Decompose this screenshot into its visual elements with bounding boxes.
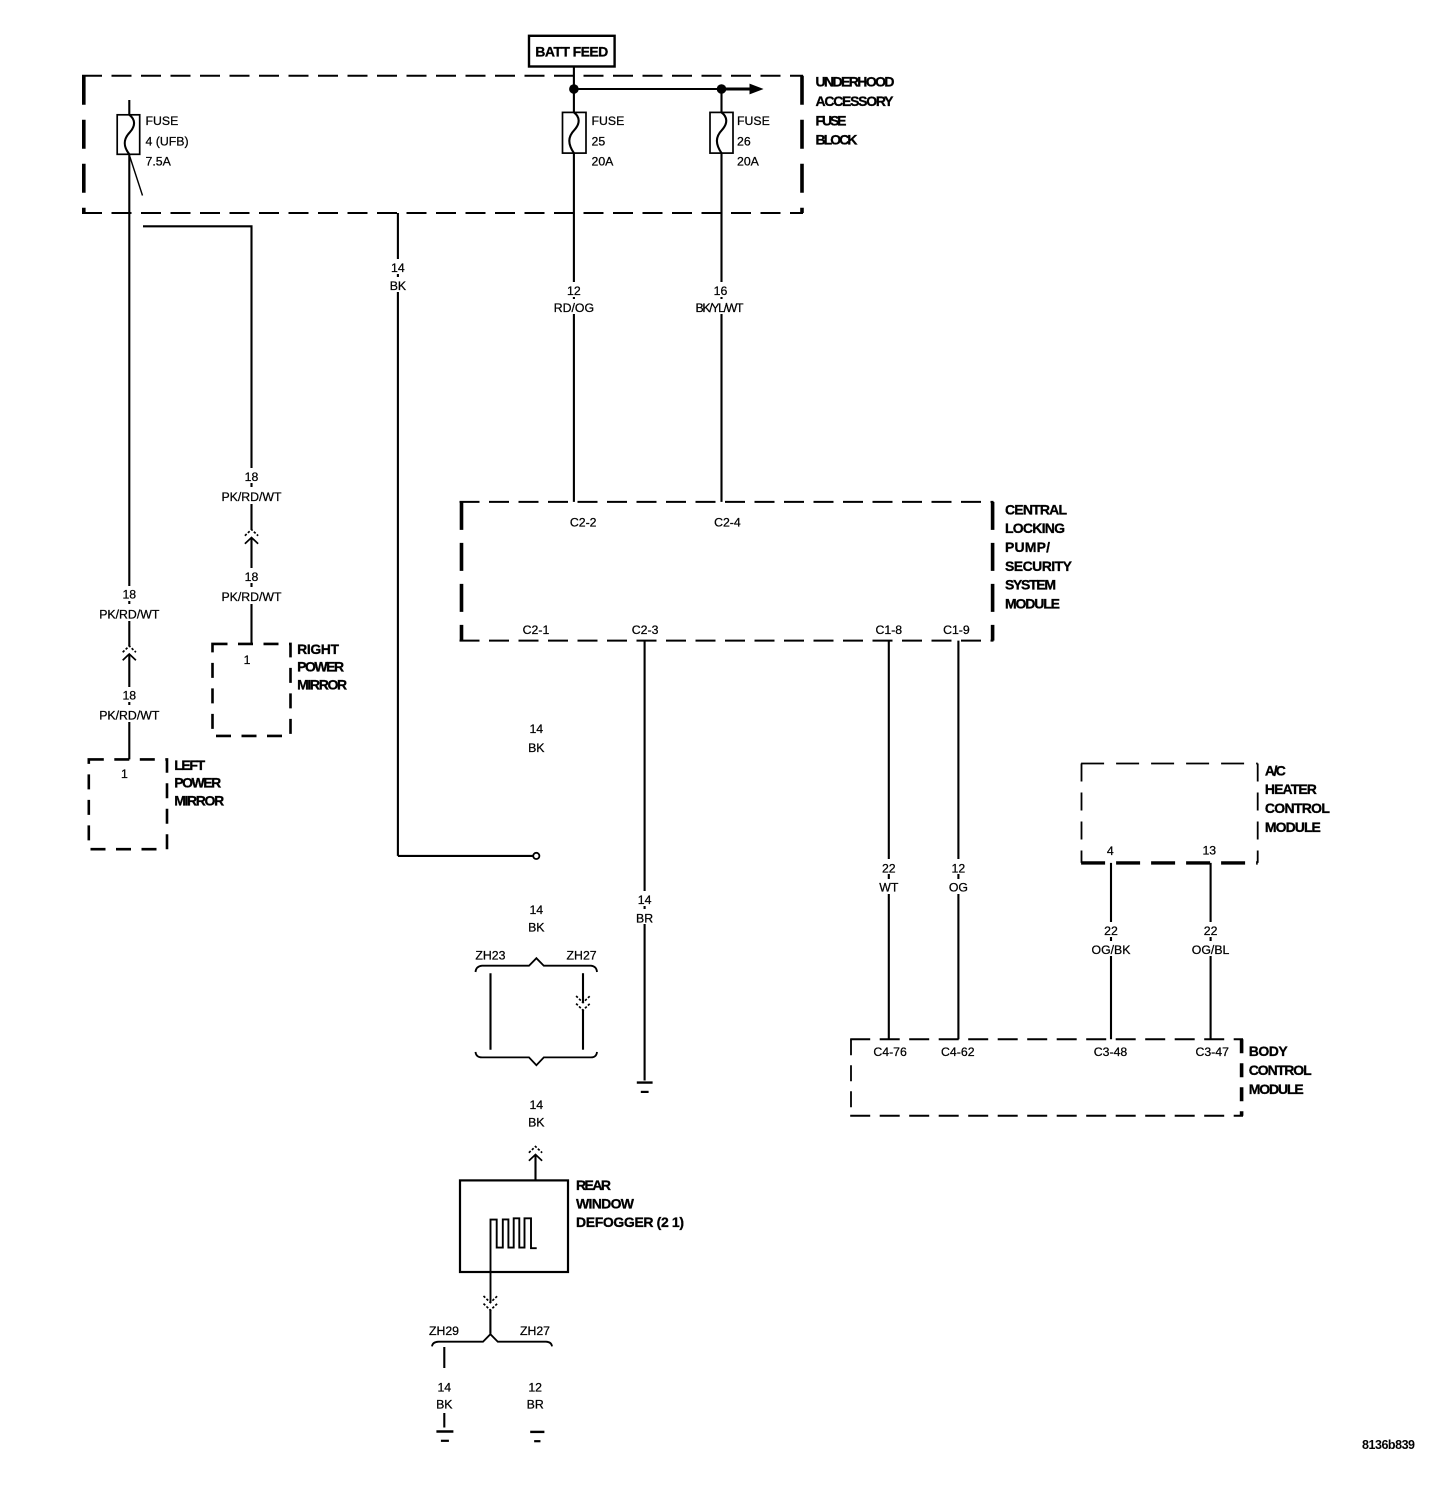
svg-text:C2-1: C2-1 <box>523 623 550 637</box>
svg-text:7.5A: 7.5A <box>146 155 172 169</box>
svg-text:20A: 20A <box>737 155 760 169</box>
svg-text:14: 14 <box>638 893 652 907</box>
svg-text:HEATER: HEATER <box>1265 781 1317 797</box>
svg-text:CONTROL: CONTROL <box>1265 800 1330 816</box>
svg-text:18: 18 <box>122 688 136 702</box>
svg-text:OG/BL: OG/BL <box>1192 943 1230 957</box>
svg-text:BLOCK: BLOCK <box>816 132 858 148</box>
svg-text:CENTRAL: CENTRAL <box>1005 501 1067 517</box>
svg-text:13: 13 <box>1202 844 1216 858</box>
svg-text:18: 18 <box>245 570 259 584</box>
svg-text:26: 26 <box>737 134 751 148</box>
svg-text:8136b839: 8136b839 <box>1362 1438 1415 1452</box>
svg-text:14: 14 <box>529 722 543 736</box>
svg-text:POWER: POWER <box>174 775 221 791</box>
svg-text:PK/RD/WT: PK/RD/WT <box>99 708 160 722</box>
svg-text:DEFOGGER (2 1): DEFOGGER (2 1) <box>576 1214 684 1230</box>
svg-text:LEFT: LEFT <box>174 757 205 773</box>
svg-text:MIRROR: MIRROR <box>174 793 224 809</box>
svg-text:A/C: A/C <box>1265 762 1286 778</box>
svg-text:WT: WT <box>879 881 899 895</box>
svg-text:BODY: BODY <box>1249 1043 1289 1059</box>
svg-text:ZH27: ZH27 <box>520 1324 550 1338</box>
svg-text:MODULE: MODULE <box>1249 1081 1304 1097</box>
svg-text:MODULE: MODULE <box>1265 819 1321 835</box>
svg-text:C1-9: C1-9 <box>943 623 970 637</box>
svg-text:C1-8: C1-8 <box>875 623 902 637</box>
svg-text:C2-2: C2-2 <box>570 516 597 530</box>
svg-text:12: 12 <box>952 861 966 875</box>
svg-text:16: 16 <box>714 284 728 298</box>
svg-text:BR: BR <box>527 1398 544 1412</box>
svg-text:C3-48: C3-48 <box>1094 1045 1128 1059</box>
svg-text:BK: BK <box>528 921 545 935</box>
svg-text:BK: BK <box>390 279 407 293</box>
svg-text:BK: BK <box>528 1116 545 1130</box>
svg-text:MODULE: MODULE <box>1005 595 1060 611</box>
svg-text:22: 22 <box>1204 924 1218 938</box>
svg-text:14: 14 <box>437 1381 451 1395</box>
svg-text:14: 14 <box>529 1098 543 1112</box>
svg-text:18: 18 <box>245 470 259 484</box>
svg-text:MIRROR: MIRROR <box>297 677 347 693</box>
svg-text:WINDOW: WINDOW <box>576 1196 635 1212</box>
svg-text:SYSTEM: SYSTEM <box>1005 577 1056 593</box>
svg-text:14: 14 <box>529 903 543 917</box>
svg-text:18: 18 <box>122 588 136 602</box>
svg-text:FUSE: FUSE <box>592 114 625 128</box>
svg-text:BK: BK <box>528 741 545 755</box>
svg-text:C2-3: C2-3 <box>632 623 659 637</box>
svg-text:1: 1 <box>121 767 128 781</box>
svg-text:FUSE: FUSE <box>737 114 770 128</box>
svg-text:25: 25 <box>592 134 606 148</box>
svg-text:UNDERHOOD: UNDERHOOD <box>816 74 895 90</box>
svg-text:PUMP/: PUMP/ <box>1005 539 1050 555</box>
svg-text:C2-4: C2-4 <box>714 516 741 530</box>
svg-text:BATT FEED: BATT FEED <box>535 43 608 59</box>
svg-text:PK/RD/WT: PK/RD/WT <box>221 590 282 604</box>
svg-text:22: 22 <box>882 861 896 875</box>
svg-text:BK/YL/WT: BK/YL/WT <box>696 301 744 315</box>
svg-text:LOCKING: LOCKING <box>1005 520 1065 536</box>
svg-text:ZH29: ZH29 <box>429 1324 459 1338</box>
svg-text:4: 4 <box>1107 844 1114 858</box>
svg-text:ACCESSORY: ACCESSORY <box>816 93 895 109</box>
svg-text:C3-47: C3-47 <box>1195 1045 1229 1059</box>
svg-text:BR: BR <box>636 912 653 926</box>
svg-text:PK/RD/WT: PK/RD/WT <box>221 490 282 504</box>
svg-text:SECURITY: SECURITY <box>1005 558 1073 574</box>
svg-text:FUSE: FUSE <box>816 112 847 128</box>
svg-text:20A: 20A <box>592 155 615 169</box>
svg-text:RIGHT: RIGHT <box>297 641 339 657</box>
svg-text:C4-76: C4-76 <box>873 1045 907 1059</box>
svg-text:OG: OG <box>949 881 968 895</box>
svg-text:FUSE: FUSE <box>146 114 179 128</box>
svg-text:OG/BK: OG/BK <box>1092 943 1132 957</box>
svg-text:12: 12 <box>528 1381 542 1395</box>
svg-text:POWER: POWER <box>297 659 344 675</box>
svg-text:22: 22 <box>1104 924 1118 938</box>
svg-text:BK: BK <box>436 1398 453 1412</box>
svg-text:CONTROL: CONTROL <box>1249 1062 1312 1078</box>
svg-text:PK/RD/WT: PK/RD/WT <box>99 607 160 621</box>
svg-text:4 (UFB): 4 (UFB) <box>146 134 189 148</box>
svg-text:1: 1 <box>244 653 251 667</box>
svg-text:C4-62: C4-62 <box>941 1045 975 1059</box>
svg-text:ZH27: ZH27 <box>567 948 597 962</box>
svg-text:12: 12 <box>567 284 581 298</box>
svg-text:RD/OG: RD/OG <box>554 301 594 315</box>
svg-text:ZH23: ZH23 <box>475 948 505 962</box>
svg-text:REAR: REAR <box>576 1177 611 1193</box>
svg-text:14: 14 <box>391 261 405 275</box>
